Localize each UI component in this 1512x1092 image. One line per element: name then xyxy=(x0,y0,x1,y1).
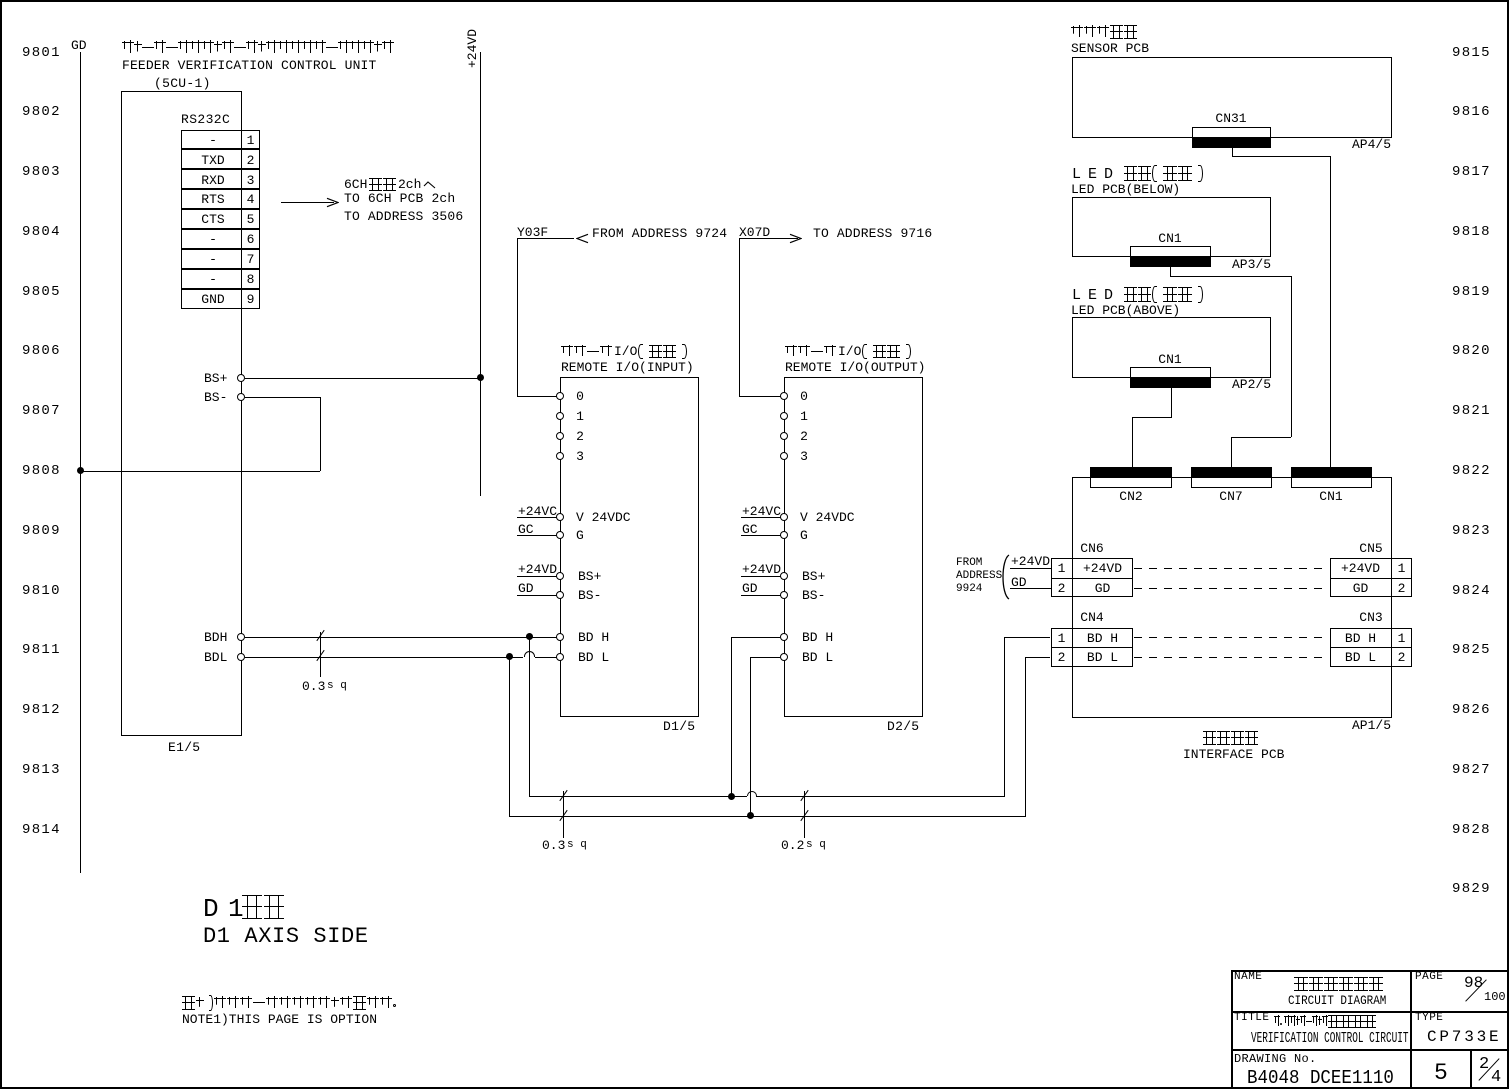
net +24VC label xyxy=(518,504,557,519)
wire Y03F lead xyxy=(517,238,574,239)
connector RS232C table xyxy=(181,130,260,150)
control unit designator E1/5 xyxy=(168,740,200,755)
right row reference numbers 9815-9829 xyxy=(1452,45,1491,61)
cable CN4-CN3 BD H dashed xyxy=(1134,637,1328,638)
title block PAGE xyxy=(1415,971,1443,983)
label FROM ADDRESS 9724 xyxy=(592,226,727,241)
pin BD L xyxy=(556,653,564,661)
junction BDH xyxy=(526,633,533,640)
wire BDL bus horizontal xyxy=(509,816,1026,817)
pin BDH control unit xyxy=(237,633,245,641)
sensor PCB title japanese xyxy=(1071,25,1083,39)
designator AP4/5 xyxy=(1352,137,1391,152)
control unit title japanese xyxy=(122,40,134,55)
wire Y03F to input pin 0 xyxy=(517,396,557,397)
control unit title english xyxy=(122,58,376,73)
cable CN6-CN5 GD dashed xyxy=(1134,588,1328,589)
wire +24VD vertical xyxy=(480,52,481,496)
remote I/O title japanese xyxy=(785,345,797,358)
label D1 axis side japanese xyxy=(203,894,219,924)
designator D1/5 xyxy=(663,719,695,734)
wire AP2 CN1 to interface CN2 xyxy=(1171,388,1172,418)
connector CN3 table xyxy=(1330,628,1412,667)
title block DRAWING No. xyxy=(1234,1052,1317,1066)
pin BD H xyxy=(780,633,788,641)
wire GD vertical xyxy=(80,52,81,873)
LED PCB above box AP2 xyxy=(1072,317,1271,378)
title block drawing number xyxy=(1247,1067,1394,1089)
title block TITLE xyxy=(1234,1012,1270,1024)
wire CN31 to interface CN1 xyxy=(1232,148,1233,157)
title block CIRCUIT DIAGRAM xyxy=(1288,993,1386,1008)
connector CN4 label xyxy=(1080,610,1103,625)
net GD label xyxy=(742,581,758,596)
arrow to address 9716 xyxy=(772,238,798,239)
label TO ADDRESS 9716 xyxy=(813,226,932,241)
connector CN1 (AP3) xyxy=(1130,246,1211,257)
label TO 6CH PCB 2ch xyxy=(344,191,455,206)
wire BDL bus up to CN4 xyxy=(1025,657,1026,816)
junction +24VD/BS+ xyxy=(477,374,484,381)
net +24VD label (rotated) xyxy=(466,29,479,68)
remote I/O title english xyxy=(785,360,925,375)
title block sheet 5 xyxy=(1434,1060,1448,1086)
pin G xyxy=(556,531,564,539)
net X07D label xyxy=(739,225,770,240)
wire X07D lead xyxy=(739,238,772,239)
note japanese xyxy=(182,996,195,1010)
net GD into CN6 xyxy=(1011,575,1027,590)
wire BDH bus down xyxy=(529,637,530,797)
connector CN1 (AP2) xyxy=(1130,367,1211,378)
connector CN1 bar interface xyxy=(1291,467,1372,477)
cable CN4-CN3 BD L dashed xyxy=(1134,657,1328,658)
title block name japanese xyxy=(1294,977,1308,991)
arrow to 6CH PCB xyxy=(281,202,334,203)
connector CN5 table xyxy=(1330,558,1412,597)
connector CN31 xyxy=(1192,127,1271,138)
label TO ADDRESS 3506 xyxy=(344,209,463,224)
title block NAME xyxy=(1234,971,1262,983)
cable CN6-CN5 +24VD dashed xyxy=(1134,568,1328,569)
net +24VD into CN6 xyxy=(1011,554,1050,569)
net +24VD label xyxy=(742,562,781,577)
wire X07D to output pin 0 xyxy=(739,396,784,397)
pin BS- control unit xyxy=(237,393,245,401)
connector CN6 table xyxy=(1051,558,1133,597)
LED PCB below box AP3 xyxy=(1072,197,1271,257)
LED PCB below title english xyxy=(1071,182,1180,197)
wire BS+ to +24VD xyxy=(245,378,480,379)
brace from address 9924 xyxy=(997,554,1011,600)
LED PCB below title japanese xyxy=(1072,166,1120,183)
LED PCB above title english xyxy=(1071,303,1180,318)
control unit box E1 xyxy=(121,91,242,736)
designator AP1/5 xyxy=(1352,718,1391,733)
net GD label xyxy=(71,38,87,53)
interface PCB box AP1 xyxy=(1072,477,1392,718)
net +24VD label xyxy=(518,562,557,577)
wire BS- loop to GD xyxy=(245,397,320,398)
left row reference numbers 9801-9814 xyxy=(22,45,61,61)
connector CN6 label xyxy=(1080,541,1103,556)
wire BDL horizontal with hop xyxy=(245,657,509,658)
connector RS232C pin names xyxy=(209,133,217,148)
connector CN1 label (AP3) xyxy=(1158,231,1181,246)
connector CN1 label (AP2) xyxy=(1158,352,1181,367)
remote I/O input pins 0-3 xyxy=(556,392,564,400)
label 0.2sq bus xyxy=(781,838,804,853)
LED PCB above title japanese xyxy=(1072,287,1120,304)
wire gauge marks 0.2sq bus xyxy=(804,791,805,838)
connector CN4 table xyxy=(1051,628,1133,667)
remote I/O title english xyxy=(561,360,694,375)
label FROM ADDRESS 9924 xyxy=(956,557,982,569)
designator AP2/5 xyxy=(1232,377,1271,392)
pin BD L xyxy=(780,653,788,661)
remote I/O unit box xyxy=(560,377,699,717)
interface PCB title english xyxy=(1183,747,1284,762)
interface PCB title japanese xyxy=(1203,731,1216,745)
wire BDH horizontal xyxy=(245,637,529,638)
connector CN3 label xyxy=(1359,610,1382,625)
arrowhead from address 9724 xyxy=(576,233,589,244)
designator D2/5 xyxy=(887,719,919,734)
wire D2 BDH drop xyxy=(731,637,732,797)
junction BDL bus to D2 xyxy=(747,812,754,819)
title block VERIFICATION CONTROL CIRCUIT xyxy=(1251,1030,1409,1047)
pin BS- xyxy=(556,591,564,599)
pin BD H xyxy=(556,633,564,641)
sensor PCB title english xyxy=(1071,41,1149,56)
connector CN2 label xyxy=(1119,489,1142,504)
wire AP3 CN1 to interface CN7 xyxy=(1170,267,1171,277)
pin V 24VDC xyxy=(556,513,564,521)
label 0.3sq control side xyxy=(302,679,325,694)
title block title japanese xyxy=(1274,1015,1280,1028)
connector RS232C label xyxy=(181,112,230,127)
pin V 24VDC xyxy=(780,513,788,521)
connector CN7 label xyxy=(1219,489,1242,504)
pin BS+ control unit xyxy=(237,374,245,382)
junction GD/BS- xyxy=(77,467,84,474)
remote I/O title japanese xyxy=(561,345,573,358)
pin BDL control unit xyxy=(237,653,245,661)
wire gauge marks 0.3sq bus xyxy=(563,791,564,838)
wire gauge marks 0.3sq control side xyxy=(320,632,321,677)
connector CN2 bar xyxy=(1090,467,1172,477)
pin BS+ xyxy=(780,572,788,580)
title block type CP733E xyxy=(1427,1028,1501,1046)
label 0.3sq bus xyxy=(542,838,565,853)
connector CN1 label interface xyxy=(1319,489,1342,504)
connector CN31 label xyxy=(1215,111,1246,126)
title block sheet 2/4 xyxy=(1479,1055,1489,1074)
label to 6CH PCB japanese xyxy=(344,177,367,192)
net GD label xyxy=(518,581,534,596)
label D1 AXIS SIDE xyxy=(203,924,369,949)
connector CN5 label xyxy=(1359,541,1382,556)
remote I/O input pins 0-3 xyxy=(780,392,788,400)
wire D2 BDL drop xyxy=(750,657,751,816)
wire BDH bus up to CN4 xyxy=(1004,637,1005,797)
pin BS+ xyxy=(556,572,564,580)
note english xyxy=(182,1012,377,1027)
title block TYPE xyxy=(1415,1012,1443,1024)
connector CN7 bar xyxy=(1191,467,1272,477)
connector RS232C pin numbers xyxy=(247,133,255,148)
wire BDH bus horizontal xyxy=(529,796,732,797)
net +24VC label xyxy=(742,504,781,519)
net GC label xyxy=(518,522,534,537)
control unit title (5CU-1) xyxy=(154,76,211,91)
designator AP3/5 xyxy=(1232,257,1271,272)
pin BS- xyxy=(780,591,788,599)
junction BDL xyxy=(506,653,513,660)
wire BDL bus down xyxy=(509,657,510,816)
title block page number 98/100 xyxy=(1464,974,1483,992)
net GC label xyxy=(742,522,758,537)
remote I/O unit box xyxy=(784,377,923,717)
net Y03F label xyxy=(517,225,548,240)
sensor PCB box AP4 xyxy=(1072,57,1392,138)
pin G xyxy=(780,531,788,539)
title block frame xyxy=(1231,970,1509,1089)
junction BDH bus to D2 xyxy=(728,793,735,800)
